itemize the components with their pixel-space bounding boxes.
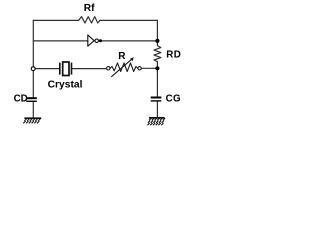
- wire CD to ground: [32, 101, 34, 118]
- resistor RD: [154, 41, 161, 68]
- wire CG to ground: [156, 101, 158, 118]
- capacitor CD: [26, 98, 37, 101]
- wire top left segment: [33, 19, 78, 21]
- wire R to junction: [141, 67, 157, 69]
- inverter U1: [88, 35, 99, 46]
- svg-text:RD: RD: [166, 49, 181, 60]
- wire inverter input: [33, 40, 88, 42]
- resistor Rf: [79, 17, 100, 23]
- svg-text:Rf: Rf: [84, 3, 95, 14]
- svg-text:R: R: [118, 51, 126, 62]
- ground (left): [23, 118, 41, 123]
- wire right vertical top: [156, 20, 158, 41]
- wire left vertical: [32, 20, 34, 98]
- crystal X1: [60, 62, 72, 76]
- svg-text:CG: CG: [166, 94, 181, 105]
- wire right vertical to CG: [156, 68, 158, 97]
- wire crystal left: [35, 68, 60, 70]
- node junction top right: [155, 39, 159, 43]
- wire crystal right: [71, 68, 106, 70]
- svg-text:Crystal: Crystal: [48, 80, 83, 91]
- ground (right): [147, 118, 165, 125]
- capacitor CG: [151, 98, 162, 101]
- svg-text:CD: CD: [14, 94, 28, 105]
- wire top right segment: [100, 19, 157, 21]
- resistor R (variable): [107, 57, 142, 76]
- node A (left open circle): [31, 67, 35, 71]
- junction dot at inverter output: [99, 39, 102, 42]
- wire inverter output: [102, 40, 157, 42]
- node junction right crystal row: [155, 66, 159, 70]
